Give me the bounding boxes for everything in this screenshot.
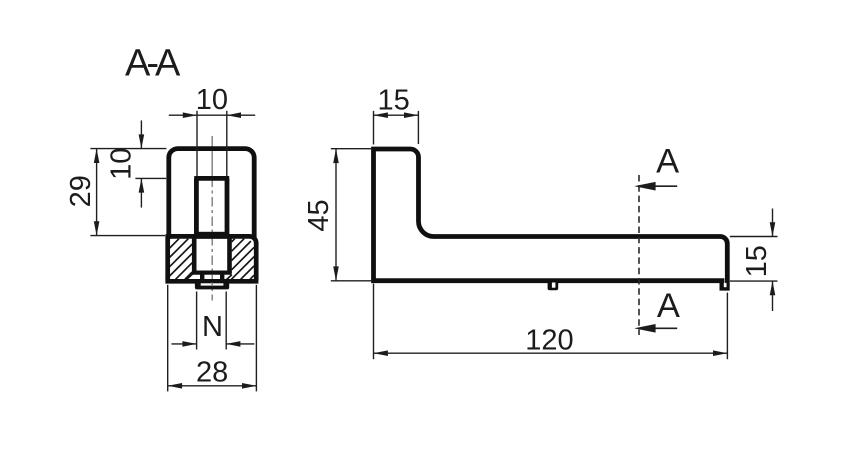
dim 28 : extension lines <box>168 285 257 392</box>
svg-text:A: A <box>656 142 679 180</box>
extension line base top left <box>90 235 165 237</box>
base section left edge <box>165 235 170 281</box>
svg-text:A: A <box>657 287 680 325</box>
dim 10 top : arrows <box>183 112 241 118</box>
body upper box outline <box>169 149 254 239</box>
right end tab notch <box>724 283 727 287</box>
dim 15 right : extension lines <box>730 237 778 282</box>
svg-text:45: 45 <box>303 199 335 231</box>
middle bottom tab <box>548 280 559 291</box>
chamfer edge left of nut channel <box>187 273 194 279</box>
section label A-A <box>125 43 181 85</box>
dim 45 : arrows <box>333 149 339 281</box>
section line A-A (dashed) <box>638 175 640 335</box>
svg-text:N: N <box>202 311 223 343</box>
hatch left block <box>170 239 193 280</box>
dim 120 : dimension line <box>374 352 728 354</box>
channel wall right <box>227 236 232 273</box>
dim 10 top : dimension line <box>169 114 255 116</box>
section arrow top <box>652 185 677 187</box>
dim 10 vertical : dimension line + arrows <box>140 120 142 207</box>
slot top edge <box>194 176 229 181</box>
chamfer edge right of nut channel <box>227 275 232 280</box>
dim 29 : dimension line + arrows <box>96 149 98 236</box>
nut neck wall right <box>220 273 224 281</box>
L-profile outline <box>374 149 728 288</box>
nut neck wall left <box>200 273 204 281</box>
section arrow bottom <box>652 327 677 329</box>
base section right edge <box>254 242 259 281</box>
channel wall left <box>192 236 197 273</box>
base bottom edge <box>165 279 258 284</box>
dim N : extension lines <box>197 292 227 350</box>
dim N : arrows <box>182 341 240 347</box>
dim 120 : extension lines <box>374 284 728 360</box>
base section top edge <box>166 236 257 243</box>
channel step bar <box>192 271 232 275</box>
dim 10 top : extension lines <box>197 111 227 176</box>
svg-text:10: 10 <box>196 84 228 116</box>
dim 28 : arrows <box>168 383 257 389</box>
svg-text:15: 15 <box>741 245 773 277</box>
dim 45 : extension lines <box>331 149 371 281</box>
svg-text:15: 15 <box>377 85 409 117</box>
extension line top edge left <box>90 148 166 150</box>
dim 15 top : extension lines <box>374 111 419 145</box>
dim 28 : dimension line <box>168 385 257 387</box>
dim 15 top : arrows <box>374 112 419 118</box>
dim 120 : arrows <box>374 350 728 356</box>
nut flange below base <box>195 279 229 289</box>
extension line slot top left <box>135 177 166 179</box>
dim 15 right : arrows <box>770 222 776 295</box>
slot shoulder junction bar <box>194 232 228 239</box>
svg-text:120: 120 <box>525 324 573 356</box>
dim 45 : dimension line <box>335 149 337 281</box>
slot wall left <box>194 178 199 234</box>
svg-text:10: 10 <box>105 148 137 180</box>
slot wall right <box>225 178 230 234</box>
svg-text:29: 29 <box>65 175 97 207</box>
hatch right block <box>231 239 254 280</box>
center line <box>211 136 213 178</box>
dim N : dimension line <box>171 343 254 345</box>
dim 15 right : dimension line <box>772 209 774 312</box>
svg-text:A-A: A-A <box>125 43 181 85</box>
svg-text:28: 28 <box>196 357 228 389</box>
dim 15 top : dimension line <box>374 114 419 116</box>
